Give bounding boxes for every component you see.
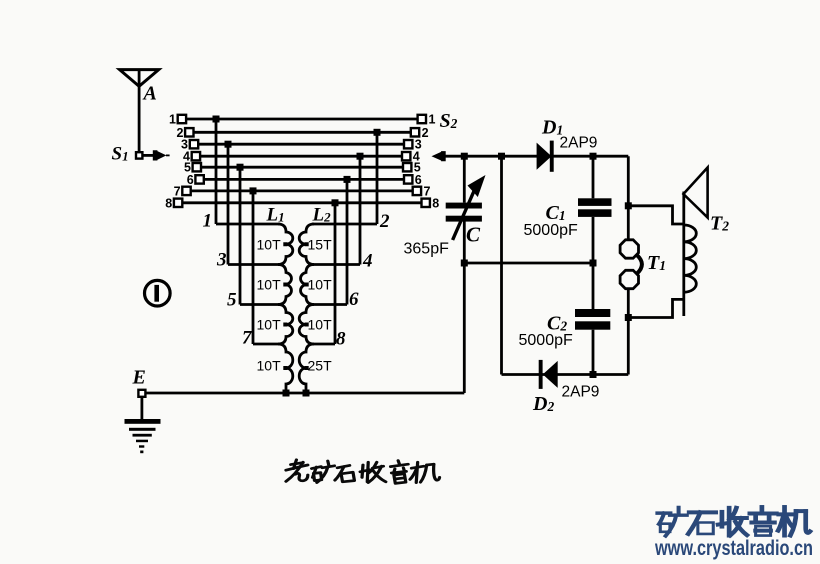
- junction toprail-leftrail: [498, 153, 505, 160]
- svg-text:2: 2: [379, 211, 390, 232]
- terminal 5 left: [193, 163, 201, 171]
- wire matrix row8: [182, 201, 421, 204]
- wire right vertical lower: [627, 289, 630, 374]
- logo char ji: [778, 507, 810, 535]
- svg-text:1: 1: [169, 113, 176, 127]
- junction rightvert-T2 bottom: [625, 314, 632, 321]
- svg-text:7: 7: [424, 184, 431, 198]
- svg-text:10T: 10T: [257, 237, 282, 253]
- wire matrix row7: [191, 189, 413, 192]
- svg-text:10T: 10T: [257, 317, 282, 333]
- wire middle rail: [464, 262, 593, 265]
- wire tap7 vertical: [252, 191, 255, 344]
- svg-text:8: 8: [432, 196, 439, 210]
- junction midrail-C1C2: [590, 260, 597, 267]
- terminal 4 left: [192, 152, 200, 160]
- terminal 1 right: [418, 115, 426, 123]
- headphone T1 bottom earpiece: [620, 270, 638, 288]
- wire C2 column lower: [592, 330, 595, 375]
- terminal 4 right: [402, 152, 410, 160]
- wire tap5 vertical: [239, 167, 242, 304]
- wire C1 column lower: [592, 217, 595, 263]
- switch S1 wiper arrow: [153, 150, 170, 160]
- calligraphy char shi: [335, 465, 354, 481]
- wire tap6 vertical: [346, 179, 349, 304]
- wire left rail: [500, 156, 503, 374]
- calligraphy char yin: [391, 461, 409, 484]
- svg-text:E: E: [132, 367, 146, 389]
- wire tap6 horizontal: [312, 303, 347, 306]
- variable capacitor C arrow: [453, 175, 486, 240]
- svg-text:C: C: [466, 223, 481, 247]
- wire matrix row4: [200, 155, 402, 158]
- terminal 3 right: [404, 140, 412, 148]
- svg-text:15T: 15T: [308, 237, 333, 253]
- svg-text:1: 1: [203, 211, 213, 232]
- inductor L1 winding 10T section 7-gnd: [278, 344, 293, 393]
- svg-text:5: 5: [227, 290, 237, 311]
- junction row1-tap1: [213, 116, 220, 123]
- switch S2 wiper arrow: [432, 151, 446, 161]
- ground symbol: [125, 419, 161, 453]
- calligraphy char shou: [360, 462, 386, 482]
- wire right vertical upper: [627, 156, 630, 239]
- wire matrix row2: [194, 131, 411, 134]
- L1 winding mid-points: [283, 242, 287, 370]
- svg-text:www.crystalradio.cn: www.crystalradio.cn: [654, 537, 813, 560]
- junction row6-tap6: [344, 176, 351, 183]
- diode D1: [537, 141, 554, 172]
- terminal 2 right: [411, 128, 419, 136]
- wire tap8 vertical: [334, 203, 337, 344]
- svg-text:10T: 10T: [257, 277, 282, 293]
- junction row7-tap7: [250, 187, 257, 194]
- terminal 5 right: [403, 163, 411, 171]
- svg-text:A: A: [142, 83, 157, 105]
- svg-text:7: 7: [174, 184, 181, 198]
- wire tap7 horizontal: [253, 343, 280, 346]
- wire matrix row5: [201, 166, 403, 169]
- inductor L2 winding 25T section 8-gnd: [299, 344, 314, 393]
- inductor L2 winding 15T section 2-4: [299, 224, 314, 265]
- wire E stem: [140, 397, 143, 420]
- speaker T2 horn: [683, 168, 707, 218]
- junction row5-tap5: [237, 164, 244, 171]
- inductor L1 winding 10T section 1-3: [278, 224, 293, 265]
- svg-text:365pF: 365pF: [404, 241, 450, 258]
- junction toprail-C1: [590, 153, 597, 160]
- wire matrix row6: [204, 178, 404, 181]
- terminal 7 left: [182, 187, 190, 195]
- variable capacitor C plates: [446, 203, 482, 222]
- junction row4-tap4: [357, 153, 364, 160]
- svg-text:10T: 10T: [257, 358, 282, 374]
- svg-text:8: 8: [336, 329, 346, 350]
- wire tap2 horizontal: [312, 223, 377, 226]
- terminal 7 right: [413, 187, 421, 195]
- wire tap4 vertical: [359, 156, 362, 264]
- junction row8-tap8: [332, 199, 339, 206]
- wire bottom rail: [502, 373, 629, 376]
- terminal 6 left: [195, 175, 203, 183]
- terminal 6 right: [404, 175, 412, 183]
- terminal 3 left: [190, 140, 198, 148]
- switch S1 terminal: [136, 152, 142, 158]
- wire tap1 horizontal: [216, 223, 280, 226]
- wire C column upper: [463, 156, 466, 202]
- terminal 8 right: [422, 199, 430, 207]
- headphone T1 headband: [637, 255, 642, 274]
- svg-text:5000pF: 5000pF: [519, 332, 573, 349]
- inductor L1 winding 10T section 3-5: [278, 265, 291, 305]
- wire C1 column upper: [592, 156, 595, 198]
- logo char kuang: [657, 507, 686, 535]
- diode D2: [539, 360, 558, 389]
- svg-text:1: 1: [429, 113, 436, 127]
- wire matrix row3: [198, 143, 404, 146]
- svg-text:6: 6: [187, 173, 194, 187]
- junction rightvert-T2 top: [625, 202, 632, 209]
- svg-text:2AP9: 2AP9: [562, 384, 600, 401]
- svg-text:8: 8: [165, 196, 172, 210]
- logo char yin: [750, 507, 776, 535]
- svg-text:6: 6: [415, 173, 422, 187]
- logo char shi: [688, 512, 715, 534]
- junction row2-tap2: [374, 129, 381, 136]
- wire tap8 horizontal: [312, 343, 335, 346]
- terminal 2 left: [185, 128, 193, 136]
- wire antenna-to-S1: [138, 70, 141, 152]
- capacitor C1 plates: [578, 198, 612, 217]
- svg-text:25T: 25T: [308, 358, 333, 374]
- calligraphy char kuang: [312, 461, 335, 483]
- wire ground bus: [145, 392, 464, 395]
- svg-text:3: 3: [216, 250, 227, 271]
- wire C column lower: [463, 222, 466, 394]
- junction L2-gnd: [303, 390, 310, 397]
- wire tap4 horizontal: [312, 263, 360, 266]
- node marker circled-1: [145, 280, 171, 306]
- junction toprail-C: [461, 153, 468, 160]
- inductor L1 winding 10T section 5-7: [278, 305, 293, 345]
- junction L1-gnd: [283, 390, 290, 397]
- junction bottomrail-C2: [590, 371, 597, 378]
- wire tap2 vertical: [376, 132, 379, 224]
- logo char shou: [718, 508, 747, 536]
- junction midrail-C: [461, 260, 468, 267]
- svg-text:6: 6: [349, 289, 359, 310]
- svg-text:2: 2: [422, 126, 429, 140]
- wire matrix row1: [186, 118, 418, 121]
- wire C2 column upper: [592, 263, 595, 309]
- speaker T2 winding: [684, 225, 697, 292]
- svg-text:10T: 10T: [308, 317, 333, 333]
- wire T2 bottom connection: [628, 299, 684, 317]
- terminal 8 left: [174, 199, 182, 207]
- wire S2 output / top rail: [445, 155, 629, 158]
- svg-text:7: 7: [242, 328, 253, 349]
- capacitor C2 plates: [575, 309, 610, 330]
- wire tap1 vertical: [215, 119, 218, 224]
- inductor L2 winding 10T section 4-6: [301, 265, 314, 305]
- svg-text:4: 4: [362, 251, 373, 272]
- svg-text:5000pF: 5000pF: [524, 222, 578, 239]
- calligraphy char ji: [410, 462, 439, 482]
- wire S1 wiper: [143, 154, 154, 157]
- wire T2 top connection: [628, 206, 684, 224]
- svg-text:2AP9: 2AP9: [560, 135, 598, 152]
- ground terminal E: [138, 390, 145, 397]
- calligraphy char lao: [286, 460, 308, 482]
- wire tap5 horizontal: [240, 303, 280, 306]
- headphone T1 top earpiece: [620, 240, 638, 258]
- terminal 1 left: [178, 115, 186, 123]
- L2 winding mid-points: [305, 242, 309, 370]
- junction row3-tap3: [225, 141, 232, 148]
- antenna A: [120, 70, 159, 152]
- inductor L2 winding 10T section 6-8: [299, 305, 314, 345]
- svg-text:10T: 10T: [308, 277, 333, 293]
- wire tap3 horizontal: [228, 263, 280, 266]
- speaker T2 armature: [682, 192, 685, 317]
- wire tap3 vertical: [227, 144, 230, 264]
